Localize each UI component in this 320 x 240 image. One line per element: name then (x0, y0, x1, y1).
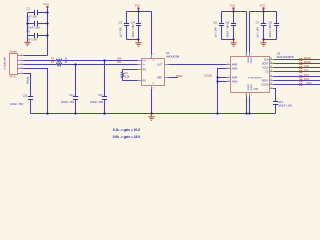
wire block A top rail (222, 11, 247, 13)
wire DVDD drop (249, 12, 251, 53)
svg-text:3V3: 3V3 (230, 3, 235, 7)
pin 3 (18, 64, 24, 66)
svg-text:13: 13 (270, 70, 272, 72)
svg-text:CLKIN: CLKIN (261, 83, 268, 86)
svg-text:C8: C8 (268, 20, 272, 24)
svg-text:16: 16 (270, 58, 272, 60)
svg-text:1uF / 50V: 1uF / 50V (26, 38, 37, 41)
power flag 3V3 (230, 3, 235, 11)
svg-text:SCLK: SCLK (262, 66, 269, 69)
svg-text:AVDD: AVDD (246, 57, 249, 63)
power flag 3V3 (260, 3, 265, 11)
ground (24, 39, 30, 46)
svg-text:Shield: Shield (26, 76, 29, 84)
svg-text:C2: C2 (26, 18, 30, 22)
svg-text:PA2: PA2 (304, 77, 309, 81)
svg-text:CS: CS (304, 68, 308, 72)
junction dots on ground bus (46, 112, 48, 114)
svg-text:100nF / 16V: 100nF / 16V (278, 103, 292, 107)
pin 2 (18, 60, 24, 62)
wire mid block top rail (127, 11, 152, 13)
svg-text:CLK: CLK (304, 64, 309, 68)
svg-text:RG: RG (143, 79, 147, 82)
svg-text:C1: C1 (26, 7, 30, 11)
svg-text:In-: In- (143, 63, 146, 66)
wire AINP2 tie (218, 77, 227, 79)
svg-text:C4: C4 (131, 20, 135, 24)
net label PA1 (300, 73, 310, 78)
svg-text:1: 1 (245, 54, 246, 56)
svg-text:14: 14 (270, 66, 272, 68)
wire mid block bottom rail (127, 39, 139, 41)
svg-text:AINN: AINN (232, 67, 238, 70)
wire S- to U1 In- (62, 64, 138, 66)
svg-text:12: 12 (270, 75, 272, 77)
svg-text:100nF / 16V: 100nF / 16V (226, 24, 229, 38)
capacitor C5 (213, 12, 224, 40)
power flag Vout (43, 2, 49, 9)
svg-text:1uF / 16V: 1uF / 16V (214, 27, 217, 38)
wire Vout rail (47, 9, 49, 56)
svg-text:3V3: 3V3 (260, 3, 265, 7)
svg-text:CALIB: CALIB (204, 74, 212, 78)
pin 5 (18, 73, 24, 75)
pin 4 (18, 68, 24, 70)
svg-text:MAX4208: MAX4208 (166, 54, 180, 58)
wire PA2 row (274, 80, 320, 82)
wire S+ to U1 In+ (62, 60, 138, 62)
wire C11 drop from S- wire (75, 65, 77, 97)
svg-text:2: 2 (21, 59, 22, 61)
svg-text:11: 11 (270, 79, 272, 81)
wire ground bus (31, 113, 276, 115)
net label CLK (300, 64, 310, 69)
net label PA2 (300, 77, 310, 82)
svg-text:1uF / 16V: 1uF / 16V (256, 27, 259, 38)
net label MISO (300, 60, 311, 65)
svg-text:PA3: PA3 (307, 81, 312, 85)
svg-text:5.1k: 5.1k (125, 75, 130, 78)
capacitor C6 (226, 12, 237, 40)
wire PA3 row (274, 84, 320, 86)
power flag 3V3 (135, 3, 140, 11)
svg-text:2: 2 (251, 54, 252, 56)
svg-text:AINP: AINP (232, 63, 238, 66)
resistor R3 (51, 61, 68, 66)
wire block A bottom rail (222, 39, 234, 41)
svg-text:1: 1 (21, 54, 22, 56)
capacitor C9 (26, 30, 47, 42)
svg-text:100nF / 35V: 100nF / 35V (132, 24, 135, 38)
svg-text:4: 4 (153, 87, 154, 89)
wire AINN2 tie (218, 81, 227, 83)
svg-text:AGND: AGND (246, 84, 249, 91)
svg-text:MOSI: MOSI (304, 56, 311, 60)
net label MOSI (300, 56, 312, 61)
svg-text:Scale: Scale (10, 50, 18, 54)
svg-text:CS: CS (265, 70, 269, 73)
wire S+ left segment (24, 60, 57, 62)
svg-text:3: 3 (245, 95, 246, 97)
wire AVDD drop (246, 12, 248, 53)
svg-text:AINN: AINN (232, 80, 238, 83)
capacitor C11 (61, 94, 78, 113)
svg-text:AIN-: AIN- (117, 61, 122, 64)
svg-text:C6: C6 (226, 20, 230, 24)
svg-text:5.6k -> gain = 18.9: 5.6k -> gain = 18.9 (113, 135, 141, 139)
pin 1 (18, 55, 24, 57)
wire U1 V- to ground bus (151, 89, 153, 114)
wire left gnd rail (27, 13, 29, 40)
capacitor C4 (131, 12, 141, 40)
svg-text:AINP: AINP (232, 76, 238, 79)
svg-text:5: 5 (21, 72, 22, 74)
svg-text:1uF / 35V: 1uF / 35V (119, 27, 122, 38)
svg-text:3: 3 (21, 63, 22, 65)
svg-text:RG: RG (143, 68, 147, 71)
svg-text:100nF / 35V: 100nF / 35V (90, 101, 104, 104)
svg-text:C7: C7 (256, 20, 260, 24)
wire shield pin5 (24, 74, 31, 97)
adc U2 ADS1234 (227, 52, 295, 97)
svg-text:DGND: DGND (249, 84, 251, 91)
wire U1 REF (169, 77, 178, 79)
svg-text:to load cell: to load cell (3, 57, 7, 70)
net label PA3 (300, 81, 312, 86)
svg-text:SYNC/RESET: SYNC/RESET (248, 77, 263, 79)
svg-text:C5: C5 (213, 20, 217, 24)
svg-text:8: 8 (228, 80, 229, 82)
connector J1 Scale (3, 50, 18, 79)
svg-text:MISO: MISO (304, 60, 311, 64)
svg-text:DVDD: DVDD (249, 57, 251, 64)
svg-text:OUT: OUT (157, 63, 163, 66)
capacitor C3 (119, 12, 130, 40)
svg-text:100nF / 16V: 100nF / 16V (269, 24, 272, 38)
ground (135, 40, 141, 47)
ground (260, 40, 266, 47)
net label CS (300, 68, 308, 73)
svg-text:AIN+: AIN+ (117, 57, 123, 60)
capacitor C7 (256, 12, 267, 40)
svg-text:100nF / 35V: 100nF / 35V (10, 103, 24, 106)
resistor R1 gain (121, 70, 137, 81)
capacitor C10 (10, 95, 33, 114)
svg-text:DOUT: DOUT (262, 62, 269, 65)
svg-text:6: 6 (228, 67, 229, 69)
capacitor C12 (90, 94, 107, 113)
svg-text:5.1k -> gain = 20.6: 5.1k -> gain = 20.6 (113, 128, 141, 132)
ground (148, 114, 154, 121)
capacitor C1 (26, 7, 47, 19)
wire U1 OUT to U2 AINP1 (169, 64, 227, 66)
svg-text:C10: C10 (23, 95, 28, 98)
svg-text:C3: C3 (119, 20, 123, 24)
svg-text:7: 7 (228, 76, 229, 78)
svg-text:REF: REF (157, 76, 162, 79)
op-amp U1 MAX4208 (138, 51, 180, 89)
capacitor C8 (268, 12, 279, 40)
svg-text:9: 9 (271, 87, 272, 89)
wire MOSI row (274, 59, 320, 61)
svg-text:7: 7 (153, 54, 154, 56)
svg-text:10: 10 (270, 83, 272, 85)
svg-text:KF-5: KF-5 (10, 75, 17, 79)
wire PA1 row (274, 76, 320, 78)
svg-text:DIN: DIN (264, 58, 268, 61)
svg-text:15: 15 (270, 62, 272, 64)
wire E- pin4 down to ground bus (24, 69, 48, 114)
svg-text:DRDY: DRDY (262, 79, 269, 82)
svg-text:100nF / 35V: 100nF / 35V (61, 101, 75, 104)
wire E+ pin1 to Vout rail (24, 55, 48, 57)
svg-text:ADS1234IPW: ADS1234IPW (277, 55, 295, 59)
svg-text:C9: C9 (26, 30, 30, 34)
resistor R2 (51, 57, 68, 61)
wire block B top rail (250, 11, 277, 13)
svg-text:VREF: VREF (176, 75, 183, 78)
wire V+ drop to U1 (151, 12, 153, 55)
wire CLK row (274, 67, 320, 69)
wire CAP pin to C13 (274, 89, 276, 102)
svg-text:5: 5 (228, 63, 229, 65)
svg-text:4: 4 (21, 67, 22, 69)
svg-text:3V3: 3V3 (135, 3, 140, 7)
wire MISO row (274, 63, 320, 65)
wire S- left segment (24, 64, 57, 66)
capacitor C2 (26, 18, 47, 30)
junction dots (46, 11, 48, 13)
svg-text:Vout: Vout (43, 2, 49, 6)
svg-text:In+: In+ (143, 59, 147, 62)
wire AGND drop (246, 96, 248, 113)
svg-text:CAP: CAP (253, 88, 258, 91)
svg-text:4: 4 (251, 95, 252, 97)
wire DGND drop (249, 96, 251, 113)
svg-text:PA1: PA1 (304, 73, 309, 77)
wire CS row (274, 71, 320, 73)
wire C12 drop from S+ wire (104, 61, 106, 97)
svg-text:V-: V- (152, 83, 154, 85)
wire block B bottom rail (264, 39, 277, 41)
wire AINN1 down to ground bus (218, 69, 227, 114)
ground (230, 40, 236, 47)
capacitor C13 (273, 100, 292, 113)
